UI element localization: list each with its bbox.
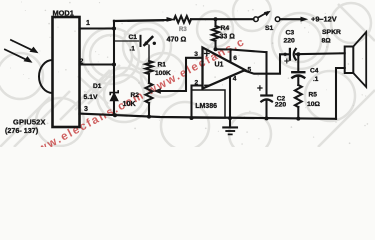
svg-text:R3: R3 [179, 27, 187, 33]
svg-text:C1: C1 [129, 34, 138, 41]
svg-text:5: 5 [248, 67, 252, 74]
wire op-amp output pin5 [245, 54, 288, 73]
svg-text:2: 2 [195, 80, 199, 87]
svg-text:3: 3 [194, 51, 198, 58]
IR arrow 2 [5, 50, 27, 61]
svg-text:8Ω: 8Ω [322, 37, 332, 44]
speaker SPKR 8 ohm [345, 47, 354, 74]
wire to C1 [114, 40, 139, 42]
potentiometer R2 10K [146, 83, 153, 103]
resistor R5 10 ohm [295, 85, 302, 107]
ground rail [80, 114, 337, 119]
LM386 label box [192, 90, 226, 118]
switch S1 [254, 17, 259, 22]
IR module MOD1 GP1U52X box [53, 17, 80, 127]
svg-text:4: 4 [233, 76, 237, 83]
capacitor C3 220uF [289, 49, 291, 60]
pin4 stub [229, 77, 231, 118]
svg-text:220: 220 [275, 102, 287, 109]
resistor R3 470 ohm [174, 16, 191, 23]
svg-text:10K: 10K [123, 99, 137, 108]
wire pin2 [80, 63, 115, 65]
svg-text:D1: D1 [93, 83, 102, 90]
svg-text:U1: U1 [215, 62, 224, 69]
op-amp U1 triangle [203, 48, 246, 89]
svg-text:LM386: LM386 [195, 103, 217, 110]
capacitor C4 0.1 branch [297, 54, 299, 71]
R2 wiper arrow wire to pin3 [158, 58, 203, 91]
wire to supply arrow [280, 18, 302, 20]
watermark gray rings [0, 0, 375, 155]
capacitor C2 plates [261, 94, 272, 96]
wire top bus [114, 19, 163, 22]
wire R2 to rail [148, 103, 150, 117]
svg-text:2: 2 [80, 59, 84, 66]
resistor R4 33 ohm [214, 19, 216, 26]
IR arrow 1 [11, 40, 33, 51]
svg-text:R1: R1 [158, 62, 167, 69]
svg-text:.1: .1 [313, 76, 319, 83]
junction dots [112, 17, 300, 120]
svg-text:(276- 137): (276- 137) [5, 126, 39, 135]
wire C1 to R1 [148, 45, 150, 61]
capacitor C1 0.1 [140, 36, 142, 46]
svg-text:C4: C4 [310, 68, 319, 75]
module dome lens [39, 60, 53, 93]
svg-text:5.1V: 5.1V [84, 94, 98, 101]
op-amp minus sign [205, 84, 210, 86]
C2 plus [258, 86, 262, 90]
svg-text:10Ω: 10Ω [307, 101, 321, 108]
svg-text:R2: R2 [131, 92, 140, 99]
resistor R1 100K [146, 61, 153, 74]
svg-text:R4: R4 [221, 25, 230, 32]
svg-text:6: 6 [233, 55, 237, 62]
svg-text:+9–12V: +9–12V [311, 14, 337, 23]
svg-text:100K: 100K [155, 70, 171, 77]
svg-text:3: 3 [84, 106, 88, 113]
speaker bottom feed [336, 68, 345, 119]
svg-text:R5: R5 [309, 92, 318, 99]
wire C3 to speaker [296, 52, 345, 55]
pin2 wire [192, 86, 203, 119]
pin6 stub [229, 49, 231, 60]
ground symbol [229, 118, 231, 127]
wire R1 to R2 [148, 74, 150, 83]
svg-text:470 Ω: 470 Ω [167, 35, 187, 44]
svg-text:.1: .1 [130, 45, 136, 52]
svg-text:MOD1: MOD1 [53, 9, 74, 18]
wire R4 junction to pin6 and C2 [216, 49, 267, 52]
capacitor C2 220uF wire [265, 52, 267, 95]
wire pin1 [80, 27, 115, 29]
svg-text:220: 220 [284, 37, 296, 44]
svg-text:1: 1 [86, 20, 90, 27]
svg-text:33 Ω: 33 Ω [220, 33, 236, 40]
svg-text:SPKR: SPKR [322, 29, 341, 36]
node vertical line 5V [113, 21, 115, 116]
watermark red text www.elecfans.com [26, 36, 248, 161]
svg-text:S1: S1 [265, 25, 274, 32]
C3 plus [285, 59, 289, 63]
zener diode D1 5.1V [110, 93, 118, 100]
svg-text:C3: C3 [286, 30, 295, 37]
op-amp plus sign [205, 51, 210, 56]
wire R3 to S1 [191, 18, 254, 20]
